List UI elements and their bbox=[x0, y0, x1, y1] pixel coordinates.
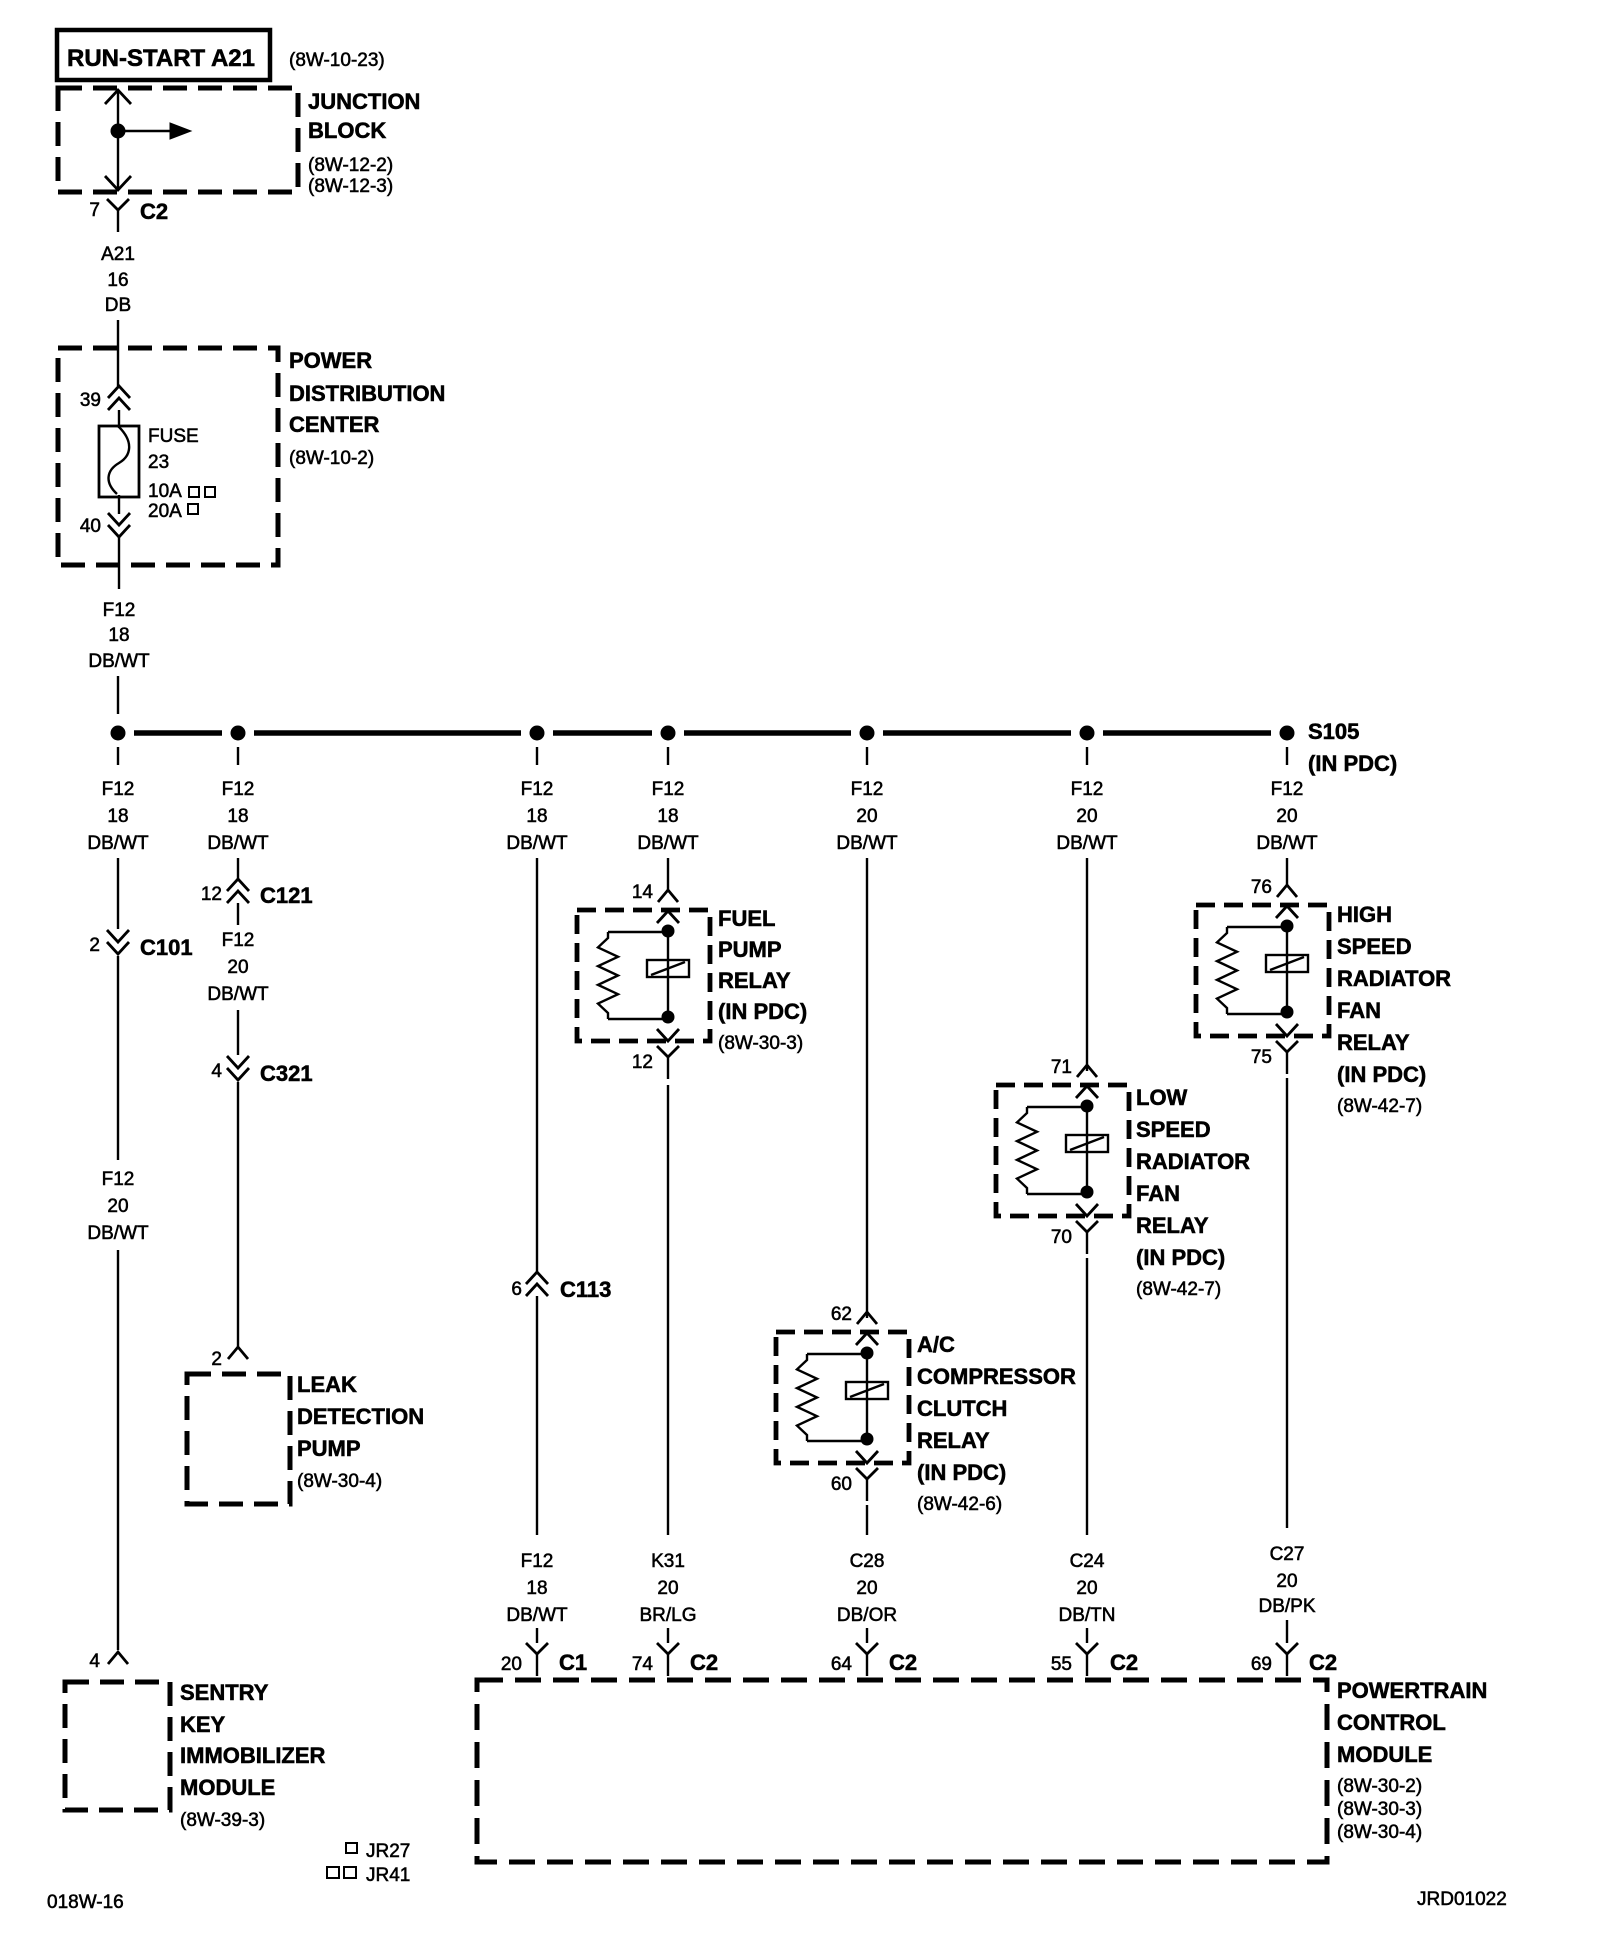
svg-text:20A: 20A bbox=[148, 501, 182, 522]
svg-text:JR41: JR41 bbox=[366, 1865, 410, 1886]
svg-text:20: 20 bbox=[227, 957, 248, 978]
svg-text:C2: C2 bbox=[140, 199, 168, 224]
wire lead into fuel pump relay pin 14 bbox=[658, 890, 678, 902]
svg-text:C2: C2 bbox=[1110, 1650, 1138, 1675]
svg-text:C2: C2 bbox=[690, 1650, 718, 1675]
svg-text:18: 18 bbox=[657, 806, 678, 827]
pin 2 (leak detection pump) bbox=[211, 1349, 222, 1370]
svg-text:18: 18 bbox=[526, 1578, 547, 1599]
svg-text:CONTROL: CONTROL bbox=[1337, 1710, 1446, 1735]
pin 55 (PCM C2) bbox=[1051, 1654, 1072, 1675]
pin 2 (C101) bbox=[89, 935, 100, 956]
svg-text:PUMP: PUMP bbox=[297, 1436, 361, 1461]
wire F12 20 DB/WT column 1 bbox=[87, 956, 149, 1650]
pin 14 bbox=[632, 882, 654, 903]
pin 6 (C113) bbox=[511, 1279, 522, 1300]
low speed radiator fan relay resistor branch bbox=[1017, 1107, 1087, 1194]
svg-text:SPEED: SPEED bbox=[1337, 934, 1412, 959]
wire stub below splice dot 6 bbox=[1086, 747, 1088, 765]
svg-text:JUNCTION: JUNCTION bbox=[308, 89, 420, 114]
power distribution center label bbox=[289, 348, 445, 469]
svg-text:DB/WT: DB/WT bbox=[1056, 833, 1118, 854]
svg-text:018W-16: 018W-16 bbox=[47, 1892, 124, 1913]
svg-text:KEY: KEY bbox=[180, 1712, 226, 1737]
svg-text:18: 18 bbox=[108, 625, 129, 646]
svg-text:CLUTCH: CLUTCH bbox=[917, 1396, 1007, 1421]
svg-text:18: 18 bbox=[526, 806, 547, 827]
svg-text:70: 70 bbox=[1051, 1227, 1072, 1248]
svg-text:DB: DB bbox=[105, 295, 131, 316]
svg-text:2: 2 bbox=[89, 935, 100, 956]
connector C101 bbox=[107, 930, 193, 960]
sentry key immobilizer module dashed box bbox=[65, 1682, 170, 1810]
junction block node dot bbox=[111, 124, 126, 139]
splice S105 label bbox=[1308, 719, 1397, 776]
svg-text:IMMOBILIZER: IMMOBILIZER bbox=[180, 1743, 326, 1768]
svg-text:BLOCK: BLOCK bbox=[308, 118, 386, 143]
feed arrow to other circuits bbox=[118, 123, 191, 139]
pin 4 (C321) bbox=[211, 1061, 222, 1082]
connector C2 (PCM, pin 74) bbox=[657, 1643, 718, 1676]
junction block label bbox=[308, 89, 420, 197]
wire C28 20 DB/OR bbox=[837, 1505, 897, 1643]
pin 75 bbox=[1251, 1047, 1272, 1068]
svg-text:FAN: FAN bbox=[1337, 998, 1381, 1023]
wire from node to junction block pin 7 bbox=[105, 131, 131, 190]
low speed radiator fan relay coil output chevron bbox=[1076, 1204, 1098, 1216]
svg-text:F12: F12 bbox=[1071, 779, 1104, 800]
pin 12 (C121) bbox=[201, 884, 222, 905]
pin 76 bbox=[1251, 877, 1272, 898]
svg-text:DB/WT: DB/WT bbox=[87, 1223, 149, 1244]
svg-text:JR27: JR27 bbox=[366, 1841, 410, 1862]
svg-text:DB/PK: DB/PK bbox=[1258, 1596, 1315, 1617]
svg-text:62: 62 bbox=[831, 1304, 852, 1325]
connector C113 bbox=[526, 1272, 611, 1302]
svg-text:69: 69 bbox=[1251, 1654, 1272, 1675]
svg-text:F12: F12 bbox=[521, 779, 554, 800]
splice S105 junction dot 4 bbox=[661, 726, 676, 741]
svg-text:POWERTRAIN: POWERTRAIN bbox=[1337, 1678, 1487, 1703]
wire stub below splice dot 2 bbox=[237, 747, 239, 765]
high speed radiator fan relay label bbox=[1337, 902, 1451, 1117]
svg-text:(IN PDC): (IN PDC) bbox=[917, 1460, 1006, 1485]
svg-text:A/C: A/C bbox=[917, 1332, 955, 1357]
high speed radiator fan relay coil bbox=[1266, 926, 1308, 1012]
pin 69 (PCM C2) bbox=[1251, 1654, 1272, 1675]
svg-text:C121: C121 bbox=[260, 883, 313, 908]
wire F12 20 DB/WT column 7 bbox=[1256, 779, 1318, 885]
svg-text:74: 74 bbox=[632, 1654, 654, 1675]
wire lead into high speed radiator fan relay pin 76 bbox=[1277, 885, 1297, 897]
connector C2 (PCM, pin 69) bbox=[1276, 1643, 1337, 1676]
fuel pump relay internal node bottom bbox=[662, 1011, 675, 1024]
svg-text:16: 16 bbox=[107, 270, 128, 291]
pin 39 bbox=[80, 386, 130, 411]
connector C121 bbox=[227, 879, 313, 908]
splice S105 junction dot 3 bbox=[530, 726, 545, 741]
a/c compressor clutch relay internal node top bbox=[861, 1347, 874, 1360]
fuel pump relay resistor branch bbox=[598, 932, 668, 1019]
svg-text:F12: F12 bbox=[521, 1551, 554, 1572]
splice S105 junction dot 2 bbox=[231, 726, 246, 741]
svg-text:20: 20 bbox=[107, 1196, 128, 1217]
svg-text:12: 12 bbox=[632, 1052, 653, 1073]
svg-text:DB/WT: DB/WT bbox=[88, 651, 150, 672]
svg-text:DB/WT: DB/WT bbox=[207, 833, 269, 854]
svg-text:DB/WT: DB/WT bbox=[87, 833, 149, 854]
wire F12 18 DB/WT column 3 lower bbox=[506, 1296, 568, 1643]
fuel pump relay label bbox=[718, 906, 807, 1054]
high speed radiator fan relay dashed box bbox=[1196, 905, 1329, 1036]
svg-text:(8W-30-3): (8W-30-3) bbox=[1337, 1799, 1422, 1820]
svg-text:DB/WT: DB/WT bbox=[1256, 833, 1318, 854]
a/c compressor clutch relay coil output chevron bbox=[856, 1451, 878, 1463]
svg-text:DB/WT: DB/WT bbox=[506, 833, 568, 854]
svg-text:(8W-30-3): (8W-30-3) bbox=[718, 1033, 803, 1054]
svg-text:RELAY: RELAY bbox=[1136, 1213, 1209, 1238]
svg-text:20: 20 bbox=[856, 806, 877, 827]
svg-text:DETECTION: DETECTION bbox=[297, 1404, 424, 1429]
svg-text:(8W-12-3): (8W-12-3) bbox=[308, 176, 393, 197]
wire lead into low speed radiator fan relay pin 71 bbox=[1077, 1065, 1097, 1077]
svg-text:55: 55 bbox=[1051, 1654, 1072, 1675]
connector C1 (PCM) bbox=[526, 1643, 587, 1676]
svg-text:DB/WT: DB/WT bbox=[637, 833, 699, 854]
svg-text:20: 20 bbox=[1076, 1578, 1097, 1599]
svg-text:(IN PDC): (IN PDC) bbox=[1308, 751, 1397, 776]
svg-text:A21: A21 bbox=[101, 244, 135, 265]
power distribution center dashed box bbox=[58, 348, 278, 565]
wire A21 16 DB bbox=[101, 244, 135, 386]
pin 64 (PCM C2) bbox=[831, 1654, 853, 1675]
a/c compressor clutch relay dashed box bbox=[776, 1332, 909, 1463]
pin 60 bbox=[831, 1474, 852, 1495]
jumper JR27 bbox=[346, 1841, 410, 1862]
svg-text:4: 4 bbox=[211, 1061, 222, 1082]
connector C2 (junction block) bbox=[107, 199, 168, 232]
wire F12 18 DB/WT column 1 bbox=[87, 779, 149, 929]
sheet number 018W-16 bbox=[47, 1892, 124, 1913]
powertrain control module label bbox=[1337, 1678, 1487, 1843]
splice S105 junction dot 5 bbox=[860, 726, 875, 741]
bus tag RUN-START A21 bbox=[57, 30, 270, 80]
splice S105 bus wire bbox=[134, 730, 1271, 736]
svg-text:23: 23 bbox=[148, 452, 169, 473]
wire lead into a/c compressor clutch relay pin 62 bbox=[857, 1312, 877, 1324]
jumper JR41 bbox=[327, 1865, 410, 1886]
fuse label FUSE 23 10A 20A bbox=[148, 426, 199, 522]
svg-text:(IN PDC): (IN PDC) bbox=[1337, 1062, 1426, 1087]
svg-text:18: 18 bbox=[227, 806, 248, 827]
svg-text:F12: F12 bbox=[652, 779, 685, 800]
svg-text:20: 20 bbox=[501, 1654, 522, 1675]
pin 40 bbox=[80, 513, 130, 537]
svg-text:RELAY: RELAY bbox=[718, 968, 791, 993]
svg-text:RUN-START A21: RUN-START A21 bbox=[67, 45, 255, 72]
wire stub below splice dot 3 bbox=[536, 747, 538, 765]
svg-text:LEAK: LEAK bbox=[297, 1372, 357, 1397]
splice S105 junction dot 6 bbox=[1080, 726, 1095, 741]
splice S105 junction dot 7 bbox=[1280, 726, 1295, 741]
pin 12 bbox=[632, 1052, 653, 1073]
high speed radiator fan relay coil output chevron bbox=[1276, 1024, 1298, 1036]
svg-text:JRD01022: JRD01022 bbox=[1417, 1889, 1507, 1910]
svg-text:4: 4 bbox=[89, 1651, 100, 1672]
svg-text:(8W-39-3): (8W-39-3) bbox=[180, 1810, 265, 1831]
fuse 23 bbox=[99, 410, 139, 514]
a/c compressor clutch relay coil bbox=[846, 1353, 888, 1439]
low speed radiator fan relay internal node top bbox=[1081, 1100, 1094, 1113]
fuse variant squares bbox=[188, 487, 215, 514]
svg-text:2: 2 bbox=[211, 1349, 222, 1370]
fuel pump relay coil output chevron bbox=[657, 1029, 679, 1041]
pin 62 bbox=[831, 1304, 852, 1325]
svg-text:SPEED: SPEED bbox=[1136, 1117, 1211, 1142]
low speed radiator fan relay internal node bottom bbox=[1081, 1186, 1094, 1199]
wire F12 20 DB/WT column 6 bbox=[1056, 779, 1118, 1071]
svg-text:10A: 10A bbox=[148, 481, 182, 502]
svg-text:BR/LG: BR/LG bbox=[639, 1605, 696, 1626]
low speed radiator fan relay dashed box bbox=[996, 1085, 1129, 1216]
svg-text:20: 20 bbox=[1076, 806, 1097, 827]
svg-text:F12: F12 bbox=[103, 600, 136, 621]
svg-text:DB/WT: DB/WT bbox=[506, 1605, 568, 1626]
reference (8W-10-23) bbox=[289, 50, 385, 71]
low speed radiator fan relay coil input chevron bbox=[1076, 1086, 1098, 1098]
pin 7 bbox=[89, 200, 100, 221]
pin 71 bbox=[1051, 1057, 1072, 1078]
svg-text:HIGH: HIGH bbox=[1337, 902, 1392, 927]
svg-text:76: 76 bbox=[1251, 877, 1272, 898]
svg-text:(IN PDC): (IN PDC) bbox=[718, 999, 807, 1024]
svg-text:(8W-10-2): (8W-10-2) bbox=[289, 448, 374, 469]
wire F12 18 DB/WT column 3 upper bbox=[506, 779, 568, 1272]
wire stub below splice dot 4 bbox=[667, 747, 669, 765]
svg-text:DB/WT: DB/WT bbox=[836, 833, 898, 854]
wire stub below splice dot 1 bbox=[117, 747, 119, 765]
svg-text:(8W-42-7): (8W-42-7) bbox=[1136, 1279, 1221, 1300]
svg-text:MODULE: MODULE bbox=[180, 1775, 275, 1800]
svg-text:F12: F12 bbox=[222, 779, 255, 800]
wire C24 20 DB/TN bbox=[1059, 1258, 1116, 1643]
a/c compressor clutch relay internal node bottom bbox=[861, 1433, 874, 1446]
connector below a/c compressor clutch relay bbox=[856, 1468, 878, 1501]
svg-text:C101: C101 bbox=[140, 935, 193, 960]
pin 74 (PCM C2) bbox=[632, 1654, 654, 1675]
wire F12 18 DB/WT column 2 bbox=[207, 779, 269, 879]
wire F12 20 DB/WT column 5 bbox=[836, 779, 898, 1318]
wire from RUN-START A21 into junction block bbox=[105, 90, 131, 131]
connector below low speed radiator fan relay bbox=[1076, 1221, 1098, 1254]
svg-text:RADIATOR: RADIATOR bbox=[1337, 966, 1451, 991]
low speed radiator fan relay coil bbox=[1066, 1106, 1108, 1192]
svg-text:C321: C321 bbox=[260, 1061, 313, 1086]
high speed radiator fan relay coil input chevron bbox=[1276, 906, 1298, 918]
svg-text:DB/WT: DB/WT bbox=[207, 984, 269, 1005]
a/c compressor clutch relay label bbox=[917, 1332, 1076, 1515]
svg-text:RADIATOR: RADIATOR bbox=[1136, 1149, 1250, 1174]
fuel pump relay coil input chevron bbox=[657, 911, 679, 923]
svg-text:20: 20 bbox=[1276, 1571, 1297, 1592]
svg-text:F12: F12 bbox=[102, 1169, 135, 1190]
wire F12 20 DB/WT column 2 lower bbox=[237, 1082, 239, 1347]
svg-text:DISTRIBUTION: DISTRIBUTION bbox=[289, 381, 445, 406]
connector into sentry key immobilizer module bbox=[108, 1652, 128, 1664]
svg-text:60: 60 bbox=[831, 1474, 852, 1495]
wire F12 18 DB/WT column 4 bbox=[637, 779, 699, 890]
connector C321 bbox=[227, 1056, 313, 1086]
svg-text:14: 14 bbox=[632, 882, 654, 903]
svg-text:C113: C113 bbox=[560, 1277, 611, 1302]
connector below fuel pump relay bbox=[657, 1046, 679, 1079]
pin 20 (PCM C1) bbox=[501, 1654, 522, 1675]
svg-text:20: 20 bbox=[657, 1578, 678, 1599]
sentry key immobilizer module label bbox=[180, 1680, 326, 1831]
low speed radiator fan relay label bbox=[1136, 1085, 1250, 1300]
svg-text:C1: C1 bbox=[559, 1650, 587, 1675]
svg-text:F12: F12 bbox=[102, 779, 135, 800]
connector C2 (PCM, pin 64) bbox=[856, 1643, 917, 1676]
junction block dashed box bbox=[58, 88, 298, 192]
fuel pump relay dashed box bbox=[577, 910, 710, 1041]
high speed radiator fan relay internal node top bbox=[1281, 920, 1294, 933]
svg-text:(IN PDC): (IN PDC) bbox=[1136, 1245, 1225, 1270]
svg-text:20: 20 bbox=[856, 1578, 877, 1599]
svg-text:FAN: FAN bbox=[1136, 1181, 1180, 1206]
svg-text:64: 64 bbox=[831, 1654, 853, 1675]
wire F12 18 DB/WT from fuse to splice S105 bbox=[88, 537, 150, 714]
svg-text:DB/OR: DB/OR bbox=[837, 1605, 897, 1626]
svg-text:SENTRY: SENTRY bbox=[180, 1680, 269, 1705]
svg-text:20: 20 bbox=[1276, 806, 1297, 827]
pin 70 bbox=[1051, 1227, 1072, 1248]
svg-text:C2: C2 bbox=[1309, 1650, 1337, 1675]
wire stub below splice dot 7 bbox=[1286, 747, 1288, 765]
powertrain control module dashed box bbox=[477, 1680, 1327, 1862]
svg-text:COMPRESSOR: COMPRESSOR bbox=[917, 1364, 1076, 1389]
wire stub below splice dot 5 bbox=[866, 747, 868, 765]
connector C2 (PCM, pin 55) bbox=[1076, 1643, 1138, 1676]
svg-text:(8W-12-2): (8W-12-2) bbox=[308, 155, 393, 176]
svg-text:(8W-42-7): (8W-42-7) bbox=[1337, 1096, 1422, 1117]
svg-text:LOW: LOW bbox=[1136, 1085, 1188, 1110]
svg-text:(8W-30-2): (8W-30-2) bbox=[1337, 1776, 1422, 1797]
wire C27 20 DB/PK bbox=[1258, 1078, 1315, 1643]
svg-text:POWER: POWER bbox=[289, 348, 372, 373]
svg-text:DB/TN: DB/TN bbox=[1059, 1605, 1116, 1626]
svg-text:(8W-42-6): (8W-42-6) bbox=[917, 1494, 1002, 1515]
connector into leak detection pump bbox=[228, 1347, 248, 1359]
fuel pump relay coil bbox=[647, 931, 689, 1017]
svg-text:6: 6 bbox=[511, 1279, 522, 1300]
svg-text:RELAY: RELAY bbox=[917, 1428, 990, 1453]
svg-text:PUMP: PUMP bbox=[718, 937, 782, 962]
svg-text:C27: C27 bbox=[1270, 1544, 1305, 1565]
svg-text:40: 40 bbox=[80, 516, 101, 537]
high speed radiator fan relay resistor branch bbox=[1217, 927, 1287, 1014]
svg-text:C2: C2 bbox=[889, 1650, 917, 1675]
fuel pump relay internal node top bbox=[662, 925, 675, 938]
svg-text:71: 71 bbox=[1051, 1057, 1072, 1078]
svg-text:FUEL: FUEL bbox=[718, 906, 775, 931]
svg-text:F12: F12 bbox=[222, 930, 255, 951]
a/c compressor clutch relay resistor branch bbox=[797, 1354, 867, 1441]
splice S105 junction dot 1 bbox=[111, 726, 126, 741]
leak detection pump dashed box bbox=[187, 1374, 290, 1504]
svg-text:C28: C28 bbox=[850, 1551, 885, 1572]
svg-text:RELAY: RELAY bbox=[1337, 1030, 1410, 1055]
high speed radiator fan relay internal node bottom bbox=[1281, 1006, 1294, 1019]
pin 4 (sentry key immobilizer module) bbox=[89, 1651, 100, 1672]
svg-text:(8W-30-4): (8W-30-4) bbox=[297, 1471, 382, 1492]
svg-text:(8W-30-4): (8W-30-4) bbox=[1337, 1822, 1422, 1843]
svg-text:F12: F12 bbox=[851, 779, 884, 800]
svg-text:(8W-10-23): (8W-10-23) bbox=[289, 50, 385, 71]
wire K31 20 BR/LG bbox=[639, 1085, 696, 1643]
svg-text:18: 18 bbox=[107, 806, 128, 827]
connector below high speed radiator fan relay bbox=[1276, 1041, 1298, 1074]
svg-text:FUSE: FUSE bbox=[148, 426, 199, 447]
svg-text:S105: S105 bbox=[1308, 719, 1359, 744]
drawing number JRD01022 bbox=[1417, 1889, 1507, 1910]
wire F12 20 DB/WT column 2 upper bbox=[207, 903, 269, 1055]
leak detection pump label bbox=[297, 1372, 424, 1492]
svg-text:7: 7 bbox=[89, 200, 100, 221]
svg-text:F12: F12 bbox=[1271, 779, 1304, 800]
svg-text:39: 39 bbox=[80, 390, 101, 411]
svg-text:C24: C24 bbox=[1070, 1551, 1105, 1572]
svg-text:75: 75 bbox=[1251, 1047, 1272, 1068]
svg-text:K31: K31 bbox=[651, 1551, 685, 1572]
svg-text:12: 12 bbox=[201, 884, 222, 905]
svg-text:MODULE: MODULE bbox=[1337, 1742, 1432, 1767]
svg-text:CENTER: CENTER bbox=[289, 412, 380, 437]
a/c compressor clutch relay coil input chevron bbox=[856, 1333, 878, 1345]
